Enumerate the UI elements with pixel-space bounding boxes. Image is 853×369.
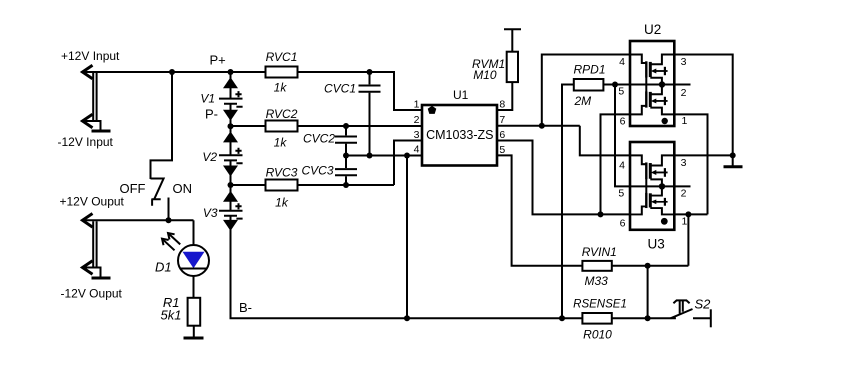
svg-text:1: 1 (414, 99, 420, 111)
svg-text:8: 8 (499, 99, 505, 111)
svg-text:D1: D1 (155, 259, 172, 274)
svg-text:-12V Ouput: -12V Ouput (61, 286, 123, 300)
svg-text:V3: V3 (203, 206, 218, 220)
svg-text:CM1033-ZS: CM1033-ZS (426, 128, 493, 142)
svg-text:2: 2 (414, 114, 420, 126)
svg-text:3: 3 (414, 129, 420, 141)
svg-text:7: 7 (499, 114, 505, 126)
svg-text:6: 6 (620, 116, 626, 128)
svg-text:CVC1: CVC1 (324, 81, 356, 95)
svg-text:S2: S2 (695, 296, 712, 311)
svg-text:5: 5 (618, 86, 624, 98)
svg-text:2M: 2M (574, 94, 592, 108)
svg-text:5: 5 (618, 188, 624, 200)
svg-text:RVIN1: RVIN1 (582, 245, 617, 259)
svg-text:P-: P- (205, 107, 218, 122)
svg-text:U3: U3 (648, 236, 665, 251)
svg-text:-12V Input: -12V Input (58, 135, 114, 149)
svg-text:V1: V1 (200, 92, 215, 106)
svg-text:1k: 1k (274, 136, 288, 150)
svg-text:1k: 1k (275, 196, 289, 210)
svg-text:RVC1: RVC1 (266, 50, 298, 64)
svg-text:3: 3 (681, 157, 687, 169)
svg-text:ON: ON (173, 181, 193, 196)
svg-text:2: 2 (681, 188, 687, 200)
svg-text:5: 5 (499, 144, 505, 156)
svg-text:6: 6 (499, 129, 505, 141)
svg-text:2: 2 (681, 87, 687, 99)
svg-text:RVC3: RVC3 (266, 165, 298, 179)
svg-text:M10: M10 (473, 68, 497, 82)
svg-text:OFF: OFF (120, 181, 146, 196)
svg-text:4: 4 (619, 56, 625, 68)
svg-text:V2: V2 (202, 150, 217, 164)
svg-text:4: 4 (414, 144, 420, 156)
svg-text:RVC2: RVC2 (266, 107, 298, 121)
svg-text:U2: U2 (644, 22, 661, 37)
svg-text:CVC2: CVC2 (303, 131, 335, 145)
svg-text:M33: M33 (585, 274, 609, 288)
svg-text:1k: 1k (274, 81, 288, 95)
svg-text:4: 4 (619, 160, 625, 172)
svg-text:+12V Ouput: +12V Ouput (60, 194, 125, 208)
svg-text:U1: U1 (453, 88, 469, 102)
svg-text:1: 1 (682, 216, 688, 228)
svg-text:RPD1: RPD1 (574, 63, 606, 77)
svg-text:+12V Input: +12V Input (61, 49, 120, 63)
svg-text:3: 3 (681, 56, 687, 68)
svg-text:R010: R010 (583, 327, 612, 341)
svg-text:RSENSE1: RSENSE1 (573, 299, 627, 311)
svg-text:B-: B- (239, 300, 252, 315)
svg-text:1: 1 (682, 115, 688, 127)
svg-text:5k1: 5k1 (161, 307, 182, 322)
svg-text:CVC3: CVC3 (301, 164, 333, 178)
svg-text:6: 6 (620, 218, 626, 230)
svg-text:P+: P+ (210, 52, 226, 67)
